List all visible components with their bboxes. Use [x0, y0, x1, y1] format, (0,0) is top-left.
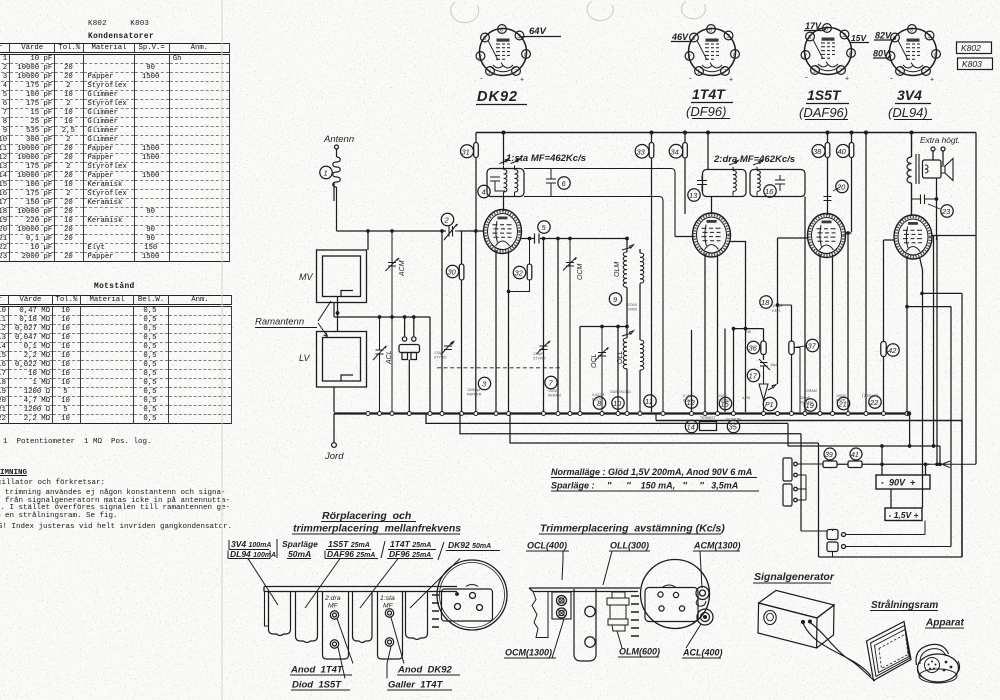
IFT2 primary can	[703, 170, 747, 197]
wire: OLM to OLL link	[627, 288, 640, 341]
svg-text:PAPP: PAPP	[836, 399, 846, 403]
svg-text:39: 39	[825, 452, 833, 459]
coupling capacitor C23	[912, 195, 937, 205]
IFT1 secondary box / long leads	[524, 169, 675, 413]
wire: x=936.5 down to HT node	[932, 199, 976, 236]
resistor R32 hung from anode line	[509, 239, 530, 292]
svg-text:OCM: OCM	[577, 264, 584, 281]
svg-text:16: 16	[765, 187, 774, 196]
component bubble 1	[320, 166, 332, 178]
svg-text:(DL94): (DL94)	[888, 105, 928, 120]
speaker grille	[925, 658, 940, 673]
svg-text:50mA: 50mA	[288, 549, 311, 559]
output cable twisted pair	[803, 623, 875, 682]
wire: LV loop top lead	[337, 317, 339, 332]
svg-text:LV: LV	[299, 353, 311, 363]
wire: fuse line	[837, 446, 930, 475]
wire: OLL bottoms to bus	[627, 369, 640, 412]
resistor R40 dropper	[851, 133, 853, 233]
capacitor table C1-C23	[0, 43, 230, 262]
gang mounting plate	[442, 589, 493, 621]
pointer line 1T4T to socket	[360, 559, 398, 609]
component bubble 23	[941, 205, 953, 217]
svg-text:Apparat: Apparat	[925, 618, 964, 629]
wire: riser x=543.5 with oscillator trimmer	[543, 239, 545, 413]
antenna terminal	[335, 145, 339, 149]
svg-text:36: 36	[749, 344, 758, 353]
fuse R39	[823, 461, 837, 468]
svg-text:535: 535	[745, 330, 751, 334]
component bubble 20	[836, 180, 848, 192]
signal generator cabinet	[759, 590, 834, 618]
torn chassis edge	[532, 592, 548, 638]
component bubble 40	[837, 145, 850, 158]
thermistor block on filament bus	[700, 422, 717, 431]
svg-text:1T4T 25mA: 1T4T 25mA	[390, 539, 431, 549]
wire: V1 filament legs to bus	[496, 250, 509, 412]
svg-text:KOLM: KOLM	[592, 398, 602, 402]
svg-text:1T4T: 1T4T	[692, 86, 726, 102]
page fold line	[221, 0, 223, 700]
svg-text:17V: 17V	[805, 21, 822, 31]
OLM tuned loops right	[640, 253, 644, 283]
potentiometer note	[3, 438, 152, 446]
K803 reference box	[958, 58, 993, 70]
capacitor C17	[759, 359, 770, 371]
component bubble 2	[441, 213, 453, 225]
wire: V2 filament legs to bus	[705, 254, 718, 413]
pointer line 1S5T to socket	[305, 559, 340, 609]
svg-text:Galler 1T4T: Galler 1T4T	[388, 680, 444, 691]
svg-text:80V: 80V	[873, 49, 890, 59]
wire: V4 screen feed steps	[922, 293, 962, 557]
svg-text:(DAF96): (DAF96)	[799, 105, 848, 120]
svg-text:3V4 100mA: 3V4 100mA	[231, 539, 271, 549]
wire: detector line from V3	[778, 237, 809, 239]
transformer core	[916, 154, 919, 184]
wire: rail drop to IF1 primary	[503, 133, 505, 166]
step wire grid bias	[460, 414, 801, 532]
tube socket 3V4	[886, 25, 940, 84]
component bubble 21	[837, 397, 849, 409]
switch contact S1	[827, 530, 838, 540]
trimmer capacitor OCM on x=570	[563, 239, 576, 413]
wire: IF1 top lead corner into V2 grid	[675, 236, 694, 238]
receiver lid open	[916, 644, 948, 665]
trimmer screw diod 1S5T	[330, 640, 338, 648]
svg-text:30: 30	[448, 268, 457, 277]
svg-text:K802: K802	[961, 43, 981, 53]
svg-text:10000: 10000	[548, 389, 558, 393]
svg-text:18: 18	[761, 298, 770, 307]
pentagrid tube V1 DK92	[484, 210, 522, 254]
component bubble 36	[747, 341, 759, 353]
OLL tuned loops right	[640, 340, 644, 370]
component bubble 3	[478, 377, 490, 389]
15V supply label on 1S5T pin	[846, 36, 870, 43]
wire: V4 anode to output transformer	[911, 183, 913, 216]
wire: plug common to bus	[408, 360, 410, 413]
svg-text:OLM: OLM	[614, 262, 621, 277]
detector/AF tube V3 1S5T	[808, 214, 846, 258]
wire: V2 grid2 return x=745.5 junction	[744, 327, 746, 329]
svg-text:Extra högt.: Extra högt.	[920, 135, 960, 145]
wire: arrow junction at HT+	[930, 461, 976, 468]
svg-text:40: 40	[838, 147, 847, 156]
trimmer screw anod 1T4T	[330, 611, 338, 619]
component bubble 38	[812, 145, 825, 158]
wire: speaker return	[936, 178, 938, 199]
component bubble 34	[669, 144, 683, 158]
wire: V1 anode right to oscillator coil	[521, 238, 627, 240]
tuning gang circle	[437, 560, 507, 630]
IF can 1:sta MF	[378, 592, 403, 660]
svg-text:1:sta MF=462Kc/s: 1:sta MF=462Kc/s	[506, 153, 586, 164]
resistor R36	[763, 329, 765, 360]
svg-text:2:dra: 2:dra	[324, 595, 341, 602]
resistor R38 dropper	[827, 133, 829, 216]
svg-text:32: 32	[515, 269, 524, 278]
svg-text:Antenn: Antenn	[323, 134, 354, 145]
svg-text:DK92: DK92	[477, 89, 518, 105]
speaker terminals	[931, 147, 935, 151]
wire: riser x=725	[724, 329, 726, 412]
wire: riser x=430 tap to bus	[429, 317, 431, 412]
ground lead	[333, 414, 335, 443]
svg-text:22: 22	[869, 398, 879, 407]
tube socket DK92	[476, 25, 530, 84]
tube socket 1S5T	[801, 24, 855, 83]
pointer line DK92 to socket	[410, 559, 460, 609]
chassis bar	[264, 587, 457, 592]
svg-text:DAF96 25mA: DAF96 25mA	[327, 549, 375, 559]
step wire HT negative	[510, 414, 819, 558]
svg-text:PAPPER: PAPPER	[717, 399, 732, 403]
wire: grid line y=231 from antenna to V1	[337, 230, 485, 232]
svg-text:33: 33	[637, 148, 646, 157]
82V supply label on 3V4 pin	[874, 38, 896, 41]
component bubble 32	[513, 266, 525, 278]
wire: IF1 to V1 anode	[503, 197, 505, 212]
svg-text:1S5T 25mA: 1S5T 25mA	[328, 539, 370, 549]
svg-text:42: 42	[888, 346, 897, 355]
dial comb	[432, 595, 439, 627]
oscillator coil stack	[607, 592, 629, 631]
component bubble P1	[763, 397, 777, 411]
svg-text:GANGKOND: GANGKOND	[610, 390, 631, 394]
wire: V2 screen lead	[730, 242, 746, 413]
wire: rail drop to IF2 primary	[707, 133, 709, 170]
trimmer capacitor ACM on x=392	[386, 231, 399, 412]
wire: IF2 secondary output drop	[804, 197, 806, 413]
17V supply label on 1S5T pin	[804, 27, 827, 31]
svg-text:OCL(400): OCL(400)	[527, 541, 567, 551]
AVC dashed line	[437, 367, 560, 369]
svg-text:Normalläge : Glöd 1,5V 200mA: Normalläge : Glöd 1,5V 200mA, Anod 90V 6…	[551, 467, 752, 477]
svg-text:Ramantenn: Ramantenn	[255, 317, 304, 328]
battery plug P802 upper	[783, 458, 792, 481]
svg-text:PAPPER: PAPPER	[467, 393, 482, 397]
svg-text:DL94 100mA: DL94 100mA	[230, 549, 276, 559]
svg-text:10: 10	[613, 399, 622, 408]
coupling capacitor C5	[535, 234, 540, 244]
IFT1 primary can	[487, 169, 524, 197]
svg-text:GLÖDTR: GLÖDTR	[726, 418, 741, 422]
svg-text:(DF96): (DF96)	[686, 104, 726, 119]
svg-text:15pF: 15pF	[770, 363, 779, 367]
svg-text:0,1M: 0,1M	[683, 394, 691, 398]
capacitor C6 (IF1 secondary)	[546, 169, 556, 197]
wire: switch commons	[801, 530, 833, 558]
svg-text:Rörplacering och: Rörplacering och	[322, 510, 411, 522]
LT battery 1.5V	[885, 508, 922, 521]
svg-text:trimmerplacering mellanfrekve: trimmerplacering mellanfrekvens	[293, 523, 461, 535]
component bubble 7	[545, 376, 557, 388]
svg-text:34: 34	[671, 148, 679, 157]
svg-text:0,022M: 0,022M	[592, 393, 604, 397]
svg-text:15V: 15V	[851, 33, 867, 43]
component bubble 13	[688, 189, 700, 201]
wire: V3 anode lead	[845, 233, 852, 412]
component bubble 4	[478, 185, 490, 197]
wire: frame antenna tap y=317	[334, 316, 430, 318]
volume potentiometer P1	[759, 371, 768, 412]
svg-text:K803: K803	[962, 59, 982, 69]
svg-text:2:dra MF=462Kc/s: 2:dra MF=462Kc/s	[713, 154, 795, 165]
svg-text:17: 17	[749, 372, 758, 381]
wire: riser x=800	[795, 348, 801, 413]
svg-text:KOLM: KOLM	[683, 399, 693, 403]
svg-text:37: 37	[808, 342, 817, 351]
step wire LT negative	[426, 414, 788, 447]
wave band plug contacts	[405, 317, 414, 336]
wire: bottom return loop	[819, 556, 963, 558]
svg-text:MV: MV	[299, 272, 313, 282]
svg-text:10000pF: 10000pF	[467, 388, 482, 392]
wire: riser x=368 antenna to MV top	[367, 231, 369, 250]
pointer anod DK92 to screw	[387, 618, 404, 679]
svg-text:23: 23	[941, 207, 951, 216]
component bubble 9	[609, 293, 621, 305]
wire: IF2 primary to V2 anode	[711, 197, 713, 215]
tube bulb outline small	[353, 592, 373, 643]
wire: riser x=558	[557, 239, 559, 413]
resistor R33 dropper from rail	[651, 133, 653, 413]
wire: MV loop bottom leads	[334, 297, 338, 318]
wire: riser x=691.5	[691, 330, 693, 412]
wire: riser x=866 rail to bus	[865, 133, 867, 413]
svg-text:STYRO: STYRO	[434, 356, 447, 360]
pointer anod 1T4T to screw	[337, 619, 353, 679]
svg-text:- 1,5V +: - 1,5V +	[889, 510, 919, 520]
wire: LV loop bottom lead to ground bus	[333, 387, 335, 412]
svg-text:Signalgenerator: Signalgenerator	[754, 571, 835, 583]
trimming instructions	[0, 469, 27, 477]
capacitor C16 (IF2 secondary)	[775, 175, 785, 191]
component bubble 8	[593, 397, 605, 409]
IF2 secondary winding	[753, 160, 763, 195]
wire: HT plus feed y=446	[788, 446, 940, 464]
typewriter header K802 K803	[88, 20, 149, 28]
svg-text:Jord: Jord	[324, 451, 344, 462]
component bubble 11	[644, 395, 656, 407]
component bubble 37	[806, 339, 818, 351]
svg-text:3V4: 3V4	[897, 87, 922, 103]
wire: V4 grid return x=883.5	[884, 240, 894, 412]
resistor table title	[94, 283, 135, 291]
component bubble 15	[719, 397, 731, 409]
svg-text:DK92 50mA: DK92 50mA	[448, 540, 491, 550]
svg-text:GRAM: GRAM	[806, 389, 817, 393]
component bubble 39	[824, 448, 836, 460]
tube bulb outline 1S5T	[296, 592, 318, 643]
svg-text:OCM(1300): OCM(1300)	[505, 648, 552, 658]
component bubble 41	[850, 448, 862, 460]
component bubble 6	[558, 177, 570, 189]
faint scan artifacts	[451, 1, 706, 23]
svg-text:ACM(1300): ACM(1300)	[693, 541, 741, 551]
capacitor C20 on V3 grid line	[824, 197, 832, 201]
oscillator coil OLL	[623, 338, 627, 369]
svg-text:Trimmerplacering avstämning (: Trimmerplacering avstämning (Kc/s)	[540, 523, 725, 535]
svg-text:38: 38	[813, 147, 822, 156]
svg-text:64V: 64V	[529, 26, 547, 37]
capacitor C4 (IF1 primary)	[490, 177, 505, 191]
loudspeaker	[923, 160, 942, 178]
wire: plug pin links	[797, 464, 823, 500]
LV frame winding	[317, 332, 367, 388]
gang plate	[645, 588, 698, 622]
80V supply label on 3V4 pin	[873, 55, 891, 59]
64V supply label on DK92 pin	[520, 36, 562, 39]
46V supply label on 1T4T pin	[671, 38, 694, 42]
capacitor C13 (IF2 primary)	[697, 176, 707, 192]
svg-text:10000: 10000	[626, 307, 638, 312]
svg-text:82V: 82V	[875, 31, 892, 41]
wire: riser x=733.5	[733, 329, 735, 412]
component bubble 42	[887, 344, 899, 356]
trimmer screw galler 1T4T	[385, 638, 393, 646]
resistor R34 dropper from rail	[684, 133, 686, 215]
resistor R37	[791, 305, 793, 412]
MV frame winding	[317, 250, 367, 303]
svg-text:7: 7	[549, 379, 554, 388]
resistor table R10-R22	[0, 295, 232, 424]
svg-text:ACM: ACM	[399, 260, 406, 277]
tube socket 1T4T	[685, 25, 739, 84]
svg-text:2: 2	[444, 216, 450, 225]
svg-text:Sparläge : ″ ″ 150: Sparläge : ″ ″ 150 mA, ″ ″ 3,5mA	[551, 481, 738, 491]
svg-text:Sparläge: Sparläge	[282, 539, 318, 549]
oscillator section horizontal y=326.5	[580, 326, 627, 328]
svg-text:OLL: OLL	[617, 351, 624, 364]
scan speckle noise	[0, 0, 1, 1]
tube bulb outline DK92	[406, 592, 428, 640]
component bubble 22	[869, 396, 881, 408]
wire: 90V to 1.5V link	[891, 464, 926, 508]
capacitor table title	[88, 33, 154, 41]
trimmer bracket with OCM/OCL screws	[552, 592, 571, 619]
receiver round cabinet	[918, 654, 959, 682]
component bubble 33	[635, 145, 649, 159]
svg-text:6: 6	[562, 179, 567, 188]
svg-text:41: 41	[851, 452, 859, 459]
component bubble 19	[804, 399, 816, 411]
battery plug P803 lower	[783, 484, 792, 506]
trimmer with arrow on AVC left	[441, 341, 454, 355]
pointer wires from label to loops	[318, 301, 331, 337]
wire: riser x=475.8	[475, 231, 477, 412]
component bubble 35	[727, 420, 739, 432]
wire: 936 drop to 90V plus	[936, 236, 938, 241]
resistor R42	[881, 342, 886, 357]
trimmer ACL screw	[697, 609, 713, 625]
trimmer screw anod DK92	[385, 609, 393, 617]
component bubble 17	[747, 369, 759, 381]
wire: left rail corner down to grid	[475, 133, 477, 232]
IF1 primary winding	[500, 159, 510, 197]
component bubble 18	[760, 296, 772, 308]
svg-text:4: 4	[482, 188, 486, 197]
svg-text:Anod DK92: Anod DK92	[397, 665, 453, 676]
svg-text:31: 31	[462, 148, 470, 157]
K802 reference box	[957, 42, 992, 54]
svg-text:Strålningsram: Strålningsram	[871, 599, 938, 611]
filament bus	[656, 421, 962, 558]
wire: V4 filament legs	[907, 256, 923, 508]
IF can 2:dra MF	[323, 592, 349, 660]
wire: riser x=442	[441, 231, 443, 412]
component bubble 14	[685, 420, 697, 432]
component bubble 31	[461, 145, 474, 158]
svg-text:MF: MF	[328, 603, 339, 610]
svg-text:OLM(600): OLM(600)	[619, 647, 660, 657]
coil former bar	[574, 589, 596, 661]
svg-text:9: 9	[613, 295, 618, 304]
svg-text:KERAM: KERAM	[800, 401, 813, 405]
svg-text:KER.: KER.	[772, 308, 781, 313]
component value annotations (tiny)	[434, 330, 878, 422]
svg-text:Diod 1S5T: Diod 1S5T	[292, 680, 342, 691]
main ground bus	[334, 412, 910, 414]
switch contact S2	[827, 542, 838, 552]
IF amplifier tube V2 1T4T	[693, 213, 731, 257]
svg-text:175pF: 175pF	[533, 352, 544, 356]
resistor R31 on x=476	[474, 143, 479, 158]
component bubble 5	[538, 221, 550, 233]
trimmer ACM screw	[696, 587, 709, 600]
trimmer capacitor OCL on x=602	[595, 327, 608, 413]
IF2 secondary can	[750, 170, 805, 197]
svg-text:STYRO: STYRO	[533, 357, 546, 361]
pointer line 3V4 to socket	[248, 559, 278, 606]
wire: V3 filament legs to bus	[820, 254, 833, 412]
wire: riser x=618	[617, 327, 619, 413]
top HT rail	[476, 132, 976, 134]
component bubble 12	[685, 396, 697, 408]
svg-text:1S5T: 1S5T	[807, 87, 842, 103]
antenna input coil L1	[333, 149, 341, 231]
svg-text:1:sta: 1:sta	[380, 595, 395, 602]
oscillator coil OLM	[626, 239, 628, 253]
IF2 primary winding	[729, 160, 739, 195]
wire: riser x=580	[579, 327, 581, 413]
svg-text:10000: 10000	[717, 394, 727, 398]
chassis deck line	[529, 588, 640, 592]
component bubble 16	[764, 185, 776, 197]
component bubble 30	[446, 265, 458, 277]
svg-text:Anod 1T4T: Anod 1T4T	[290, 665, 344, 676]
